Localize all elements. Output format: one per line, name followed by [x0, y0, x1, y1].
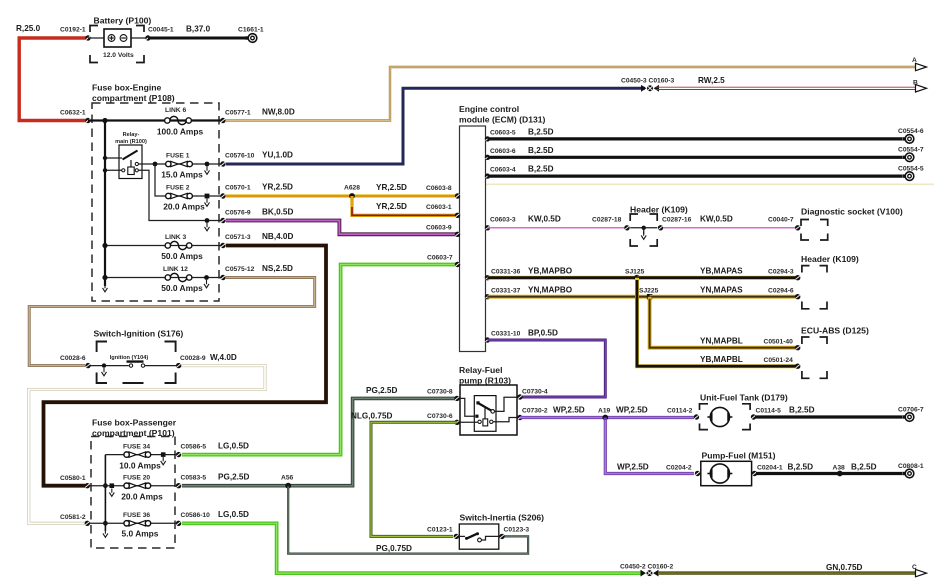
svg-text:5.0 Amps: 5.0 Amps: [122, 529, 159, 539]
wire PG,2.5D (slate/green) C0583-5 to A56 to relay C0730-8: [182, 386, 456, 486]
wire WP,2.5D (white/purple) A19 to pump C0204-2: [605, 418, 694, 474]
wire B,2.5D from C0603-6 to eyelet C0554-7: [485, 146, 902, 160]
svg-text:50.0 Amps: 50.0 Amps: [161, 283, 203, 293]
relay pin C0730-6: [427, 413, 460, 425]
wire NLG,0.75D (brown/light green) relay C0730-6 to inertia switch C0123-1: [351, 412, 457, 537]
svg-text:C0450-2 C0160-2: C0450-2 C0160-2: [620, 564, 673, 571]
svg-text:C0287-16: C0287-16: [662, 217, 692, 224]
fusible link LINK 6 100.0 Amps: [157, 107, 204, 137]
svg-text:Engine control: Engine control: [459, 104, 519, 114]
svg-text:B,2.5D: B,2.5D: [788, 463, 814, 472]
connector C0571-3: [220, 234, 251, 248]
svg-text:C0706-7: C0706-7: [898, 407, 924, 414]
svg-text:FUSE 20: FUSE 20: [123, 475, 150, 482]
svg-text:Header (K109): Header (K109): [630, 205, 688, 215]
svg-text:YN,MAPAS: YN,MAPAS: [700, 286, 743, 295]
svg-text:YU,1.0D: YU,1.0D: [262, 151, 293, 160]
svg-text:YR,2.5D: YR,2.5D: [262, 183, 293, 192]
splice SJ225: [639, 288, 659, 300]
svg-text:A38: A38: [833, 465, 846, 472]
eyelet C0554-6: [898, 128, 924, 143]
svg-text:C0632-1: C0632-1: [60, 110, 86, 117]
svg-text:YB,MAPBO: YB,MAPBO: [528, 267, 573, 276]
svg-text:B,2.5D: B,2.5D: [528, 128, 554, 137]
svg-text:C0450-3 C0160-3: C0450-3 C0160-3: [621, 78, 674, 85]
svg-text:C0501-40: C0501-40: [764, 339, 794, 346]
switch-Ignition (S176): [88, 329, 183, 384]
svg-text:C0123-3: C0123-3: [504, 527, 530, 534]
svg-text:YB,MAPAS: YB,MAPAS: [700, 267, 743, 276]
svg-text:GN,0.75D: GN,0.75D: [826, 563, 862, 572]
battery output connector C0045-1: [145, 27, 174, 41]
wire LG,0.5D (light green) C0586-10 to bottom splice: [182, 510, 641, 573]
svg-text:C0577-1: C0577-1: [225, 110, 251, 117]
svg-text:C0114-2: C0114-2: [667, 408, 693, 415]
connector C0576-10: [220, 153, 254, 167]
battery B+ connector C0192-1: [60, 27, 91, 41]
svg-text:B,2.5D: B,2.5D: [851, 463, 877, 472]
wire RW,2.5 (red/white) to arrow B: [656, 76, 916, 90]
svg-text:SJ225: SJ225: [639, 288, 659, 295]
node A19: [598, 408, 611, 421]
fuse FUSE 20 20.0 Amps: [88, 475, 179, 502]
wire YN,MAPBO (yellow/brown) C0331-37 to SJ225: [485, 286, 650, 300]
svg-text:YN,MAPBL: YN,MAPBL: [700, 337, 743, 346]
svg-text:Ignition (Y104): Ignition (Y104): [110, 355, 149, 361]
svg-text:12.0 Volts: 12.0 Volts: [103, 52, 134, 59]
ECM pin C0603-8: [455, 193, 460, 198]
svg-text:20.0 Amps: 20.0 Amps: [163, 202, 205, 212]
svg-text:20.0 Amps: 20.0 Amps: [121, 492, 163, 502]
connector C0581-2: [60, 514, 90, 526]
wire LG,0.5D (light green) C0586-5 to ECM C0603-7: [182, 255, 456, 455]
wire NB,4.0D (brown/black) C0571-3 to passenger box C0580-1: [44, 232, 327, 486]
connector C0570-1: [220, 185, 251, 199]
svg-text:WP,2.5D: WP,2.5D: [616, 406, 648, 415]
svg-text:LINK 6: LINK 6: [165, 107, 186, 114]
node A56: [281, 475, 294, 489]
svg-text:C0331-36: C0331-36: [491, 269, 521, 276]
svg-text:C0570-1: C0570-1: [225, 185, 251, 192]
svg-text:A628: A628: [344, 185, 360, 192]
svg-text:C0294-6: C0294-6: [768, 288, 794, 295]
svg-text:C0576-10: C0576-10: [225, 153, 255, 160]
connector C0028-6: [60, 355, 91, 368]
wire KW,0.5D (pink) header to diagnostic socket: [663, 215, 800, 231]
svg-text:NS,2.5D: NS,2.5D: [262, 264, 293, 273]
svg-text:Pump-Fuel (M151): Pump-Fuel (M151): [702, 451, 776, 461]
connector C0632-1: [60, 110, 91, 124]
bus continuation arrow: [103, 284, 108, 292]
svg-text:Unit-Fuel Tank (D179): Unit-Fuel Tank (D179): [700, 393, 788, 403]
wire YB,MAPBO (yellow/black) C0331-36 to SJ125: [485, 267, 637, 281]
wire YR,2.5D (yellow/red) A628 branch to C0603-1: [352, 196, 456, 215]
svg-text:WP,2.5D: WP,2.5D: [617, 463, 649, 472]
svg-text:C0580-1: C0580-1: [60, 475, 86, 482]
pump-Fuel (M151): [695, 451, 776, 486]
svg-text:LG,0.5D: LG,0.5D: [218, 442, 249, 451]
svg-text:Fuse box-Engine: Fuse box-Engine: [92, 83, 161, 93]
svg-text:R,25.0: R,25.0: [16, 24, 41, 33]
svg-text:C0603-8: C0603-8: [426, 185, 452, 192]
connector C0576-9: [220, 210, 251, 224]
wire B,2.5D tank unit to eyelet C0706-7: [755, 406, 902, 418]
battery P100: [88, 16, 151, 63]
header (K109) lower block: [801, 254, 859, 309]
off-page arrow A: [912, 57, 927, 71]
svg-text:C0730-6: C0730-6: [427, 413, 453, 420]
relay pin C0730-2: [517, 408, 548, 421]
svg-text:compartment (P101): compartment (P101): [92, 428, 175, 438]
wire YB,MAPAS (yellow/black) SJ125 to header C0294-3: [637, 267, 800, 281]
svg-text:C0586-10: C0586-10: [181, 512, 211, 519]
relay-Fuel pump (R103): [459, 365, 517, 435]
svg-text:compartment (P108): compartment (P108): [92, 93, 175, 103]
off-page arrow B: [913, 80, 927, 93]
wire NS,2.5D (brown/slate) C0575-12 to ignition switch C0028-6: [29, 264, 315, 366]
svg-text:C0114-5: C0114-5: [756, 408, 782, 415]
wire B,37.0 (black) to eyelet: [148, 25, 246, 39]
svg-text:Fuse box-Passenger: Fuse box-Passenger: [92, 418, 177, 428]
eyelet C0554-7: [898, 147, 924, 162]
wire YU,1.0D (yellow/blue) from fuse 1: [226, 88, 645, 164]
svg-text:NB,4.0D: NB,4.0D: [262, 232, 293, 241]
svg-text:C0294-3: C0294-3: [768, 269, 794, 276]
eyelet C0706-7: [898, 407, 924, 422]
svg-text:C0331-37: C0331-37: [491, 288, 521, 295]
node A38: [833, 465, 846, 477]
relay-main (R100): [103, 132, 223, 221]
relay pin C0730-8: [427, 389, 460, 402]
fuse FUSE 34 10.0 Amps: [105, 444, 178, 471]
fuse FUSE 1 15.0 Amps: [153, 153, 223, 180]
svg-text:100.0 Amps: 100.0 Amps: [157, 127, 204, 137]
wire B,2.5D from C0603-5 to eyelet C0554-6: [485, 128, 902, 142]
wire NW,8.0D (brown/white) to arrow A: [226, 67, 916, 121]
svg-text:C0204-1: C0204-1: [757, 465, 783, 472]
connector C0586-5: [176, 444, 207, 458]
svg-text:WP,2.5D: WP,2.5D: [553, 406, 585, 415]
svg-text:KW,0.5D: KW,0.5D: [700, 215, 733, 224]
svg-text:ECU-ABS (D125): ECU-ABS (D125): [801, 326, 869, 336]
header (K109) splice block: [624, 205, 691, 247]
svg-text:C0331-10: C0331-10: [491, 331, 521, 338]
svg-text:C0045-1: C0045-1: [148, 27, 174, 34]
ECM pin C0603-7: [455, 262, 460, 267]
inertia switch pin C0123-1: [427, 527, 459, 540]
wire GN,0.75D (green/brown) to arrow C: [658, 563, 916, 573]
svg-text:50.0 Amps: 50.0 Amps: [161, 251, 203, 261]
connector C0028-9: [176, 353, 237, 368]
svg-text:C0028-9: C0028-9: [180, 355, 206, 362]
svg-text:C0040-7: C0040-7: [768, 217, 794, 224]
svg-text:C0603-6: C0603-6: [490, 148, 516, 155]
svg-text:A19: A19: [598, 408, 611, 415]
svg-text:B,2.5D: B,2.5D: [528, 165, 554, 174]
svg-text:SJ125: SJ125: [625, 269, 645, 276]
svg-text:YR,2.5D: YR,2.5D: [376, 183, 407, 192]
svg-text:C0730-4: C0730-4: [522, 389, 548, 396]
svg-text:FUSE 36: FUSE 36: [123, 512, 150, 519]
connector C0583-5: [176, 475, 207, 489]
wire B,2.5D from C0603-4 to eyelet C0554-5: [485, 165, 902, 179]
connector C0586-10: [176, 512, 210, 526]
unit-Fuel Tank (D179): [694, 393, 788, 430]
svg-text:Header (K109): Header (K109): [801, 254, 859, 264]
passenger box feed bus: [103, 455, 108, 538]
svg-text:15.0 Amps: 15.0 Amps: [161, 170, 203, 180]
svg-text:YB,MAPBL: YB,MAPBL: [700, 355, 743, 364]
eyelet C0808-1: [898, 463, 924, 478]
svg-text:B: B: [913, 80, 918, 87]
main feed bus inside P108: [88, 118, 223, 286]
inline connector C0450-3 C0160-3: [621, 78, 674, 92]
svg-text:BP,0.5D: BP,0.5D: [528, 329, 558, 338]
ECM pin C0603-1: [455, 213, 460, 218]
svg-text:C0603-9: C0603-9: [426, 225, 452, 232]
svg-text:C0501-24: C0501-24: [764, 357, 794, 364]
svg-text:YN,MAPBO: YN,MAPBO: [528, 286, 573, 295]
svg-text:Relay-: Relay-: [123, 132, 140, 138]
svg-text:KW,0.5D: KW,0.5D: [528, 215, 561, 224]
ground eyelet C1661-1: [238, 27, 264, 43]
engine control module ECM (D131): [459, 104, 546, 352]
diagnostic socket (V100): [801, 207, 903, 241]
svg-text:module (ECM) (D131): module (ECM) (D131): [459, 115, 546, 125]
svg-text:Switch-Inertia (S206): Switch-Inertia (S206): [460, 513, 545, 523]
fusible link LINK 12 50.0 Amps: [102, 266, 223, 293]
wire YN,MAPAS (yellow/brown) SJ225 to header C0294-6: [650, 286, 801, 300]
svg-text:pump (R103): pump (R103): [459, 376, 511, 386]
faint watermark line: [486, 183, 934, 185]
svg-text:B,37.0: B,37.0: [186, 25, 211, 34]
connector C0580-1: [60, 475, 90, 488]
svg-text:C0583-5: C0583-5: [181, 475, 207, 482]
svg-text:LG,0.5D: LG,0.5D: [218, 510, 249, 519]
svg-text:C0603-1: C0603-1: [426, 204, 452, 211]
inline connector C0450-2 C0160-2: [620, 564, 673, 577]
svg-text:NLG,0.75D: NLG,0.75D: [351, 412, 392, 421]
splice SJ125: [625, 269, 645, 281]
svg-text:C0603-3: C0603-3: [490, 217, 516, 224]
wire YB,MAPBL (yellow/black) SJ125 to ECU-ABS C0501-24: [637, 278, 800, 369]
svg-text:C0603-7: C0603-7: [427, 255, 453, 262]
svg-text:FUSE 34: FUSE 34: [123, 444, 150, 451]
svg-text:PG,0.75D: PG,0.75D: [376, 544, 412, 553]
svg-text:C0554-5: C0554-5: [898, 165, 924, 172]
svg-text:W,4.0D: W,4.0D: [210, 353, 237, 362]
fuse box-Passenger compartment (P101) dashed enclosure: [91, 418, 177, 549]
fuse FUSE 2 20.0 Amps: [155, 164, 223, 212]
svg-text:C0123-1: C0123-1: [427, 527, 453, 534]
svg-text:main (R100): main (R100): [115, 139, 147, 145]
svg-text:Diagnostic socket (V100): Diagnostic socket (V100): [801, 207, 903, 217]
svg-text:C0192-1: C0192-1: [60, 27, 86, 34]
svg-text:C0730-2: C0730-2: [522, 408, 548, 415]
off-page arrow C: [912, 564, 927, 577]
svg-text:C0603-5: C0603-5: [490, 130, 516, 137]
svg-text:PG,2.5D: PG,2.5D: [218, 473, 249, 482]
svg-text:10.0 Amps: 10.0 Amps: [119, 461, 161, 471]
svg-text:C0554-6: C0554-6: [898, 128, 924, 135]
wire PG,0.75D (slate/green) A56 to inertia switch C0123-3: [288, 486, 528, 554]
svg-text:Switch-Ignition (S176): Switch-Ignition (S176): [94, 329, 184, 339]
svg-text:RW,2.5: RW,2.5: [698, 76, 725, 85]
ECU-ABS (D125): [801, 326, 869, 379]
svg-text:C0028-6: C0028-6: [60, 355, 86, 362]
relay pin C0730-4: [517, 389, 548, 400]
svg-text:NW,8.0D: NW,8.0D: [262, 108, 295, 117]
svg-text:Battery (P100): Battery (P100): [94, 16, 152, 26]
connector C0577-1: [220, 110, 251, 124]
inertia switch pin C0123-3: [499, 527, 529, 540]
svg-text:Relay-Fuel: Relay-Fuel: [459, 365, 502, 375]
svg-text:PG,2.5D: PG,2.5D: [366, 386, 397, 395]
svg-text:YR,2.5D: YR,2.5D: [376, 202, 407, 211]
relay coil output node to C0576-9: [205, 218, 210, 231]
svg-text:C0581-2: C0581-2: [60, 514, 86, 521]
svg-text:C0287-18: C0287-18: [592, 217, 622, 224]
fusible link LINK 3 50.0 Amps: [102, 234, 223, 261]
eyelet C0554-5: [898, 165, 924, 180]
svg-text:B,2.5D: B,2.5D: [528, 146, 554, 155]
svg-text:C0576-9: C0576-9: [225, 210, 251, 217]
svg-text:C0575-12: C0575-12: [225, 266, 255, 273]
node A628: [344, 185, 360, 199]
svg-text:C0204-2: C0204-2: [666, 465, 692, 472]
svg-text:C0571-3: C0571-3: [225, 234, 251, 241]
wire R,25.0 battery feed (red): [16, 24, 88, 121]
wire W,4.0D (white) ignition switch to passenger box C0581-2: [29, 366, 265, 524]
svg-text:A: A: [912, 57, 917, 64]
svg-text:LINK 12: LINK 12: [163, 266, 188, 273]
svg-text:A56: A56: [281, 475, 294, 482]
svg-text:C0603-4: C0603-4: [490, 167, 516, 174]
svg-text:C0586-5: C0586-5: [181, 444, 207, 451]
svg-text:C0554-7: C0554-7: [898, 147, 924, 154]
svg-text:LINK 3: LINK 3: [165, 234, 186, 241]
wire YN,MAPBL (yellow/brown) SJ225 to ECU-ABS C0501-40: [650, 297, 801, 351]
wire KW,0.5D (pink) C0603-3 to header K109: [485, 215, 626, 231]
svg-text:C0808-1: C0808-1: [898, 463, 924, 470]
svg-text:FUSE 1: FUSE 1: [166, 153, 190, 160]
fuse FUSE 36 5.0 Amps: [88, 512, 179, 539]
svg-text:C: C: [912, 564, 917, 571]
ECM pin C0603-9: [455, 232, 460, 237]
wire WP,2.5D (white/purple) relay C0730-2 through A19 to tank unit C0114-2: [520, 406, 694, 418]
connector C0575-12: [220, 266, 254, 280]
wire BP,0.5D (black/purple) C0331-10 to relay C0730-4: [485, 329, 606, 398]
svg-text:FUSE 2: FUSE 2: [166, 185, 190, 192]
wire BK,0.5D (black/pink) C0576-9 to C0603-9: [226, 208, 456, 235]
wire B,2.5D pump through A38 to eyelet C0808-1: [756, 463, 902, 474]
svg-text:BK,0.5D: BK,0.5D: [262, 208, 293, 217]
svg-text:B,2.5D: B,2.5D: [789, 406, 815, 415]
switch-Inertia (S206): [456, 513, 544, 550]
wire YR,2.5D (yellow/red) C0570-1 to A628 to C0603-8: [226, 183, 456, 197]
fuse box-Engine compartment (P108) dashed enclosure: [92, 83, 219, 302]
svg-text:C0730-8: C0730-8: [427, 389, 453, 396]
svg-text:C1661-1: C1661-1: [238, 27, 264, 34]
